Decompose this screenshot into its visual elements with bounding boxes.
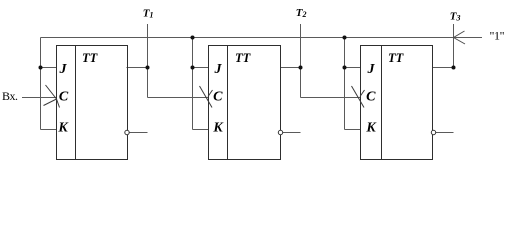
svg-text:J: J	[367, 62, 376, 77]
svg-text:C: C	[59, 90, 69, 105]
svg-text:J: J	[214, 62, 223, 77]
svg-text:K: K	[365, 121, 377, 136]
svg-text:C: C	[366, 90, 376, 105]
svg-text:K: K	[57, 121, 69, 136]
svg-text:Вх.: Вх.	[2, 89, 18, 103]
svg-text:C: C	[213, 90, 223, 105]
svg-text:TT: TT	[388, 51, 405, 65]
svg-text:K: K	[212, 121, 224, 136]
svg-text:J: J	[59, 62, 68, 77]
svg-text:TT: TT	[82, 51, 99, 65]
svg-text:TT: TT	[235, 51, 252, 65]
svg-text:"1": "1"	[490, 29, 505, 43]
